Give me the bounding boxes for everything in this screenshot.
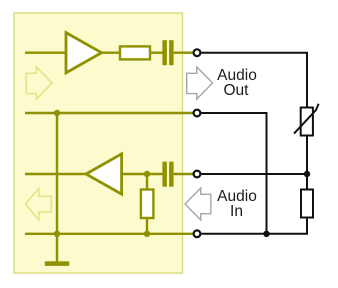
- wire U1 to R1: [102, 52, 121, 54]
- signal arrow (gray, left, Audio In): [185, 188, 211, 220]
- wire vertical ground link: [56, 113, 58, 234]
- wire terminal2 down to row4: [202, 113, 267, 234]
- svg-text:In: In: [230, 203, 243, 220]
- wire row3 terminal to node B: [202, 173, 308, 175]
- wire varistor to node B: [306, 136, 308, 190]
- varistor RV1: [301, 108, 313, 136]
- junction row2/vertical: [54, 110, 60, 116]
- svg-text:Out: Out: [224, 82, 250, 99]
- junction node R2 top: [144, 171, 150, 177]
- wire R2 to ground rail: [146, 218, 148, 234]
- terminal 2 (Audio Out gnd): [194, 110, 201, 117]
- wire row3 input to U2: [25, 173, 86, 175]
- wire R1 to C1: [150, 52, 163, 54]
- resistor R3: [301, 190, 313, 218]
- terminal 1 (Audio Out hot): [194, 49, 201, 56]
- wire C2 to terminal 3: [174, 173, 193, 175]
- direction arrow (olive, left): [25, 189, 51, 220]
- junction R2 bottom: [144, 231, 150, 237]
- wire row2 (ground rail upper): [25, 112, 193, 114]
- wire U2 to C2: [122, 173, 163, 175]
- signal arrow (gray, right, Audio Out): [187, 67, 213, 99]
- junction ground: [54, 231, 60, 237]
- wire to ground symbol: [56, 234, 58, 262]
- op-amp U2 (input buffer): [86, 154, 122, 194]
- isolated region highlight box: [14, 13, 183, 273]
- direction arrow (olive, right): [26, 67, 52, 99]
- wire row4 (ground rail lower): [25, 233, 193, 235]
- varistor RV1 diagonal: [294, 104, 319, 134]
- ground: [45, 261, 69, 266]
- wire R3 bottom to row4 terminal: [202, 218, 308, 234]
- resistor R1: [120, 46, 150, 59]
- wire C1 to terminal 1: [174, 52, 193, 54]
- wire junction to R2: [146, 174, 148, 190]
- junction node B: [304, 171, 310, 177]
- wire row1 input: [25, 52, 66, 54]
- capacitor C1: [162, 40, 173, 65]
- wire terminal1 to varistor top: [202, 53, 308, 108]
- terminal 4 (Audio In gnd): [194, 230, 201, 237]
- junction row4: [263, 231, 269, 237]
- capacitor C2: [162, 162, 173, 187]
- op-amp U1 (output buffer): [66, 33, 102, 73]
- terminal 3 (Audio In hot): [194, 171, 201, 178]
- resistor R2: [141, 190, 154, 219]
